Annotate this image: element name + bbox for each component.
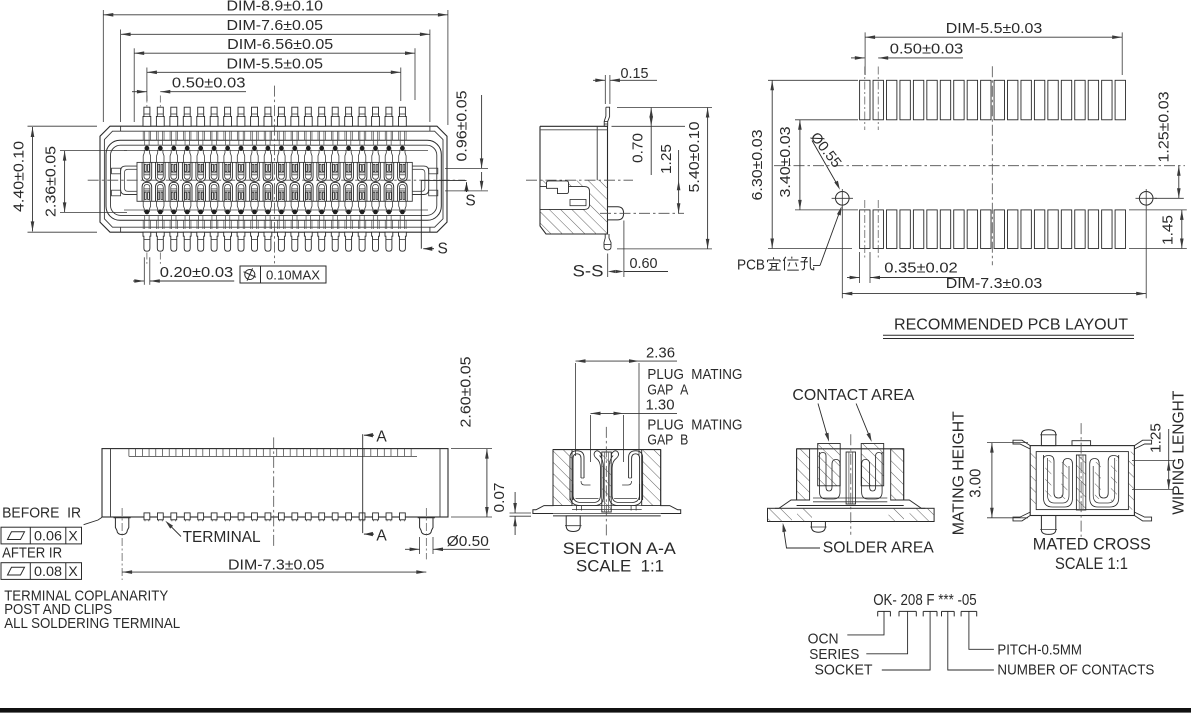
top view: terminal tails bottom row	[143, 232, 151, 251]
top view: pin shanks through shell bottom	[142, 220, 144, 229]
svg-text:DIM-7.3±0.05: DIM-7.3±0.05	[228, 557, 325, 573]
front view: vertical centerline	[273, 437, 275, 548]
svg-text:0.07: 0.07	[492, 483, 508, 513]
svg-text:DIM-5.5±0.03: DIM-5.5±0.03	[946, 21, 1043, 37]
pcb layout: hole extension lines	[841, 209, 843, 298]
contact area view: right spring	[862, 452, 883, 499]
svg-text:2.60±0.05: 2.60±0.05	[459, 357, 475, 428]
contact area view: centerline	[850, 434, 852, 535]
svg-text:X: X	[68, 563, 78, 579]
top view: vertical centerline	[274, 86, 276, 264]
svg-text:SOCKET: SOCKET	[815, 661, 873, 678]
section A-A: body outline	[553, 449, 661, 451]
contact area view: pcb bar with solder area	[768, 508, 935, 521]
mated cross: wall hatching ticks	[1030, 452, 1134, 510]
svg-text:4.40±0.10: 4.40±0.10	[12, 141, 28, 212]
top view: left bridges	[112, 168, 121, 174]
section A-A: centerline	[605, 427, 607, 536]
svg-text:1.25: 1.25	[1148, 423, 1164, 453]
svg-text:TERMINAL: TERMINAL	[183, 529, 261, 546]
section mark S-S cutting line	[421, 179, 466, 181]
svg-text:A: A	[376, 429, 387, 446]
contact area view: center rib	[846, 452, 855, 504]
top view: right bridges	[429, 168, 438, 174]
leader before ir	[84, 517, 102, 524]
pcb layout: pad pitch centerlines	[864, 67, 866, 131]
svg-text:PLUG MATING: PLUG MATING	[647, 367, 742, 383]
contact area view: body bottom and feet	[797, 505, 904, 507]
section A-A: left contact spring	[570, 451, 584, 500]
svg-text:S-S: S-S	[573, 262, 604, 281]
front view: teeth strip	[129, 455, 417, 457]
top view: body inner contour	[104, 131, 443, 227]
section A-A: extension lines gap A	[575, 363, 577, 456]
section arrow A upper	[364, 433, 373, 437]
svg-text:OK- 208 F *** -05: OK- 208 F *** -05	[873, 592, 977, 609]
front view: side wall inner edges	[110, 449, 112, 517]
svg-text:0.60: 0.60	[630, 256, 658, 272]
section A-A: bottom peg	[566, 516, 580, 532]
mated cross: plug shell inner outline	[1036, 452, 1128, 510]
svg-text:0.50±0.03: 0.50±0.03	[890, 42, 964, 58]
svg-text:GAP B: GAP B	[647, 433, 688, 449]
front view: body outline	[102, 449, 448, 517]
svg-text:DIM-7.6±0.05: DIM-7.6±0.05	[227, 18, 324, 34]
svg-text:SCALE 1:1: SCALE 1:1	[576, 558, 664, 576]
svg-text:OCN: OCN	[808, 630, 839, 647]
svg-text:0.10MAX: 0.10MAX	[266, 268, 320, 283]
section arrow A lower	[364, 532, 373, 536]
pcb layout: horizontal centerline	[774, 165, 1185, 167]
svg-text:A: A	[376, 527, 387, 544]
mated cross: centerline	[1080, 423, 1082, 537]
front view: left solder peg	[115, 517, 128, 535]
svg-text:CONTACT AREA: CONTACT AREA	[792, 387, 915, 404]
svg-text:DIM-6.56±0.05: DIM-6.56±0.05	[227, 37, 333, 53]
top view: pin shanks through shell top	[142, 131, 144, 140]
svg-text:DIM-5.5±0.05: DIM-5.5±0.05	[227, 56, 324, 72]
top view: center island tongue	[137, 162, 412, 201]
svg-text:1.25±0.03: 1.25±0.03	[1157, 92, 1173, 163]
svg-text:0.08: 0.08	[34, 563, 62, 579]
S-S section: terminal tail upper	[604, 107, 609, 126]
section A-A: right contact spring	[629, 451, 643, 500]
svg-text:1.25: 1.25	[659, 144, 675, 174]
top view: contact slot cells lower row	[142, 182, 152, 201]
pcb layout: locating hole right	[1139, 192, 1153, 206]
top view: shelf edge lines	[124, 150, 428, 152]
svg-text:2.36±0.05: 2.36±0.05	[44, 146, 60, 217]
svg-text:6.30±0.03: 6.30±0.03	[750, 130, 766, 201]
svg-text:MATING HEIGHT: MATING HEIGHT	[951, 411, 968, 536]
top view: right end tab	[412, 166, 428, 194]
mated cross: right mated contact pair	[1090, 455, 1119, 507]
svg-text:0.50±0.03: 0.50±0.03	[172, 75, 246, 91]
svg-text:AFTER IR: AFTER IR	[2, 545, 62, 562]
section A-A: extension lines gap B	[590, 415, 592, 462]
contact area view: cavity shelf	[813, 497, 887, 499]
contact area view: hatched walls	[797, 449, 810, 500]
svg-text:PLUG MATING: PLUG MATING	[647, 418, 742, 434]
top view: shell rail ends	[120, 126, 122, 131]
svg-text:WIPING LENGHT: WIPING LENGHT	[1171, 390, 1188, 515]
pcb layout: locating hole left	[836, 192, 850, 206]
top view: terminal tails top row	[143, 107, 151, 126]
svg-text:X: X	[68, 527, 78, 543]
svg-text:SECTION A-A: SECTION A-A	[563, 540, 676, 558]
svg-text:ALL SOLDERING TERMINAL: ALL SOLDERING TERMINAL	[4, 615, 180, 632]
svg-text:MATED CROSS: MATED CROSS	[1033, 536, 1151, 554]
svg-text:0.15: 0.15	[621, 66, 649, 82]
section line A-A	[362, 434, 364, 533]
svg-text:DIM-7.3±0.03: DIM-7.3±0.03	[946, 276, 1043, 292]
mated cross: top peg	[1041, 430, 1055, 446]
svg-text:3.40±0.03: 3.40±0.03	[778, 127, 794, 198]
S-S section: terminal tail lower with solder foot	[604, 234, 611, 250]
S-S section: side peg	[608, 207, 624, 220]
svg-text:GAP A: GAP A	[647, 383, 688, 399]
svg-text:NUMBER OF CONTACTS: NUMBER OF CONTACTS	[997, 661, 1154, 678]
section A-A: cavity shelf	[572, 505, 642, 507]
leader line PCB locating hole	[813, 265, 820, 267]
S-S section: terminal retention tab	[547, 181, 569, 194]
title block border bottom bar	[0, 708, 1191, 713]
front view: peg centerlines	[121, 508, 123, 580]
svg-text:Ø0.50: Ø0.50	[447, 534, 489, 550]
svg-text:SOLDER AREA: SOLDER AREA	[823, 540, 935, 557]
svg-text:PITCH-0.5MM: PITCH-0.5MM	[997, 642, 1082, 659]
top view: contact slot cells upper row	[142, 162, 152, 181]
svg-text:0.96±0.05: 0.96±0.05	[455, 91, 471, 162]
pcb layout: bottom pad row	[860, 210, 870, 249]
svg-text:5.40±0.10: 5.40±0.10	[687, 122, 703, 193]
mated cross: bottom wings	[1013, 512, 1030, 521]
svg-text:S: S	[465, 193, 475, 210]
dim 0.15 tail thickness	[604, 75, 606, 104]
svg-text:PCB: PCB	[737, 258, 765, 274]
top view: terminal bottles lower	[143, 201, 150, 212]
S-S section: terminal anchor block	[570, 200, 586, 206]
svg-text:S: S	[438, 241, 448, 258]
section A-A: center rib	[602, 452, 611, 512]
svg-text:BEFORE IR: BEFORE IR	[2, 504, 81, 521]
flatness frame 0.06	[1, 527, 82, 544]
svg-text:DIM-8.9±0.10: DIM-8.9±0.10	[227, 0, 324, 15]
flatness frame 0.08	[1, 563, 82, 580]
front view: terminals	[144, 513, 150, 520]
svg-text:3.00: 3.00	[968, 468, 985, 497]
mated cross: socket body outline	[1030, 446, 1134, 516]
top view: left end tab	[121, 166, 137, 194]
svg-text:0.06: 0.06	[34, 527, 62, 543]
pcb layout: top pad row	[860, 80, 870, 120]
top view: terminal bottles upper	[143, 150, 150, 163]
svg-text:0.20±0.03: 0.20±0.03	[160, 265, 234, 281]
top view: socket wall outer ring	[106, 140, 441, 220]
top view: stitch dots upper row	[145, 146, 150, 151]
S-S section: centerline	[526, 179, 633, 181]
position tolerance feature control frame	[240, 266, 326, 283]
contact area view: hatched contact area boxes	[818, 444, 841, 486]
S-S section: body outline	[604, 125, 607, 127]
top view: stitch dots lower row	[145, 210, 150, 215]
mated cross: plug tongue top bump	[1072, 441, 1091, 446]
svg-text:2.36: 2.36	[646, 345, 675, 361]
S-S section: slot inner wall	[596, 126, 598, 180]
S-S section: terminal slot cavity	[540, 187, 590, 210]
mated cross: top wings	[1013, 440, 1030, 449]
svg-text:SCALE 1:1: SCALE 1:1	[1055, 555, 1128, 573]
svg-text:0.35±0.02: 0.35±0.02	[884, 260, 958, 276]
svg-text:RECOMMENDED PCB LAYOUT: RECOMMENDED PCB LAYOUT	[894, 317, 1129, 334]
section arrow S upper	[464, 182, 468, 191]
contact area view: left spring	[820, 452, 841, 499]
mated cross: center rib	[1076, 455, 1085, 510]
top view: socket wall inner ring	[111, 145, 437, 215]
top view: connector body outline	[100, 126, 447, 232]
mated cross: bottom peg	[1041, 516, 1055, 535]
contact area view: bottom peg	[811, 522, 825, 533]
pcb layout: vertical centerline	[991, 66, 993, 265]
front view: right solder peg	[420, 517, 433, 535]
svg-text:SERIES: SERIES	[809, 646, 859, 663]
top view: pin pitch centerlines	[146, 96, 148, 107]
svg-text:0.70: 0.70	[630, 133, 646, 163]
section A-A: hatched walls	[553, 450, 572, 506]
top view: horizontal centerline	[88, 179, 465, 181]
S-S section: hatched lower body	[540, 180, 608, 234]
svg-text:1.45: 1.45	[1161, 215, 1177, 245]
contact area view: body outline	[797, 448, 904, 450]
section arrow S lower	[423, 247, 432, 251]
svg-text:1.30: 1.30	[646, 398, 675, 414]
S-S section: peg centerline	[600, 212, 684, 214]
part number underline ticks	[878, 610, 891, 612]
mated cross: left mated contact pair	[1044, 455, 1073, 507]
